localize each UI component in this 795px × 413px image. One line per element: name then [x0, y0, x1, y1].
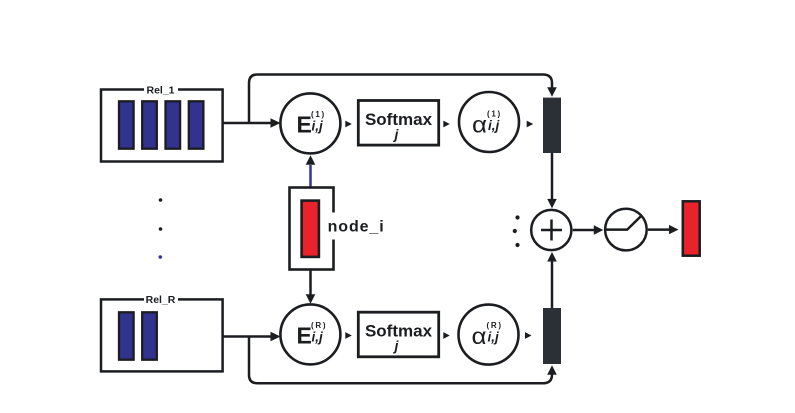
svg-text:node_i: node_i — [328, 219, 385, 236]
svg-text:Softmax: Softmax — [365, 110, 433, 129]
svg-text:i,j: i,j — [312, 119, 324, 134]
svg-text:Softmax: Softmax — [365, 322, 433, 341]
svg-text:E: E — [297, 323, 312, 349]
svg-text:i,j: i,j — [488, 118, 500, 133]
svg-text:Rel_1: Rel_1 — [146, 84, 174, 96]
svg-text:i,j: i,j — [312, 330, 324, 345]
svg-text:E: E — [297, 112, 312, 138]
svg-text:i,j: i,j — [488, 330, 500, 345]
svg-text:α: α — [472, 324, 487, 349]
svg-text:α: α — [472, 113, 487, 138]
svg-text:Rel_R: Rel_R — [146, 294, 176, 306]
